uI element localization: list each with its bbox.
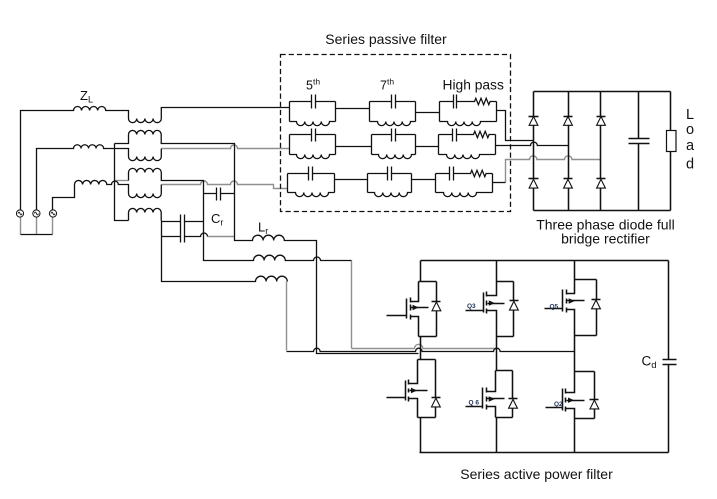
svg-text:Q3: Q3 [467, 303, 476, 310]
svg-text:Q2: Q2 [554, 401, 563, 408]
svg-text:Series passive filter: Series passive filter [325, 31, 447, 47]
svg-text:d: d [686, 157, 694, 173]
svg-text:Q5: Q5 [550, 304, 559, 311]
svg-text:bridge rectifier: bridge rectifier [561, 231, 650, 247]
svg-text:a: a [686, 138, 695, 154]
svg-text:Q 6: Q 6 [469, 400, 480, 407]
svg-text:o: o [686, 122, 694, 138]
svg-text:L: L [686, 107, 694, 123]
svg-text:High pass: High pass [443, 78, 504, 93]
svg-text:Series active power filter: Series active power filter [460, 466, 613, 482]
